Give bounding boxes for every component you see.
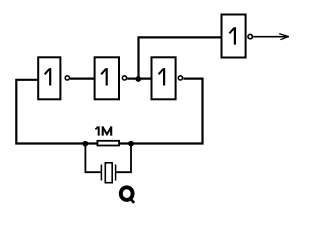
- junction node A: [135, 76, 141, 82]
- inverter U3 label 1: [163, 68, 165, 85]
- wire node A up and right to U4 input: [139, 37, 221, 79]
- inverter U1 box: [38, 57, 60, 99]
- wire crystal branch right: [116, 144, 131, 173]
- wire U1 to U2: [70, 77, 95, 79]
- inverter U3 box: [152, 57, 176, 99]
- inverter U3 output bubble: [178, 76, 182, 80]
- junction dot left of R1: [82, 141, 88, 147]
- inverter U2 label 1: [106, 68, 108, 85]
- crystal Q1 right plate: [115, 165, 117, 181]
- resistor R1 value 1M: [98, 126, 100, 135]
- resistor R1 body: [97, 141, 119, 146]
- junction dot right of R1: [128, 141, 134, 147]
- wire U2 to U3: [127, 77, 151, 79]
- inverter U1 output bubble: [65, 76, 69, 80]
- crystal Q1 body: [105, 163, 112, 183]
- inverter U4 label 1: [234, 27, 236, 44]
- inverter U4 box: [222, 15, 246, 58]
- arrowhead output: [279, 34, 289, 40]
- inverter U2 output bubble: [122, 76, 126, 80]
- wire U4 output: [253, 36, 289, 38]
- inverter U2 box: [95, 57, 119, 99]
- inverter U1 label 1: [49, 68, 51, 85]
- wire crystal branch left: [85, 144, 100, 173]
- crystal Q1 left plate: [100, 165, 102, 181]
- inverter U4 output bubble: [248, 34, 252, 38]
- crystal label Q: [121, 187, 133, 200]
- wire feedback loop: U3 output corner, bottom rail, up to U1 input: [16, 79, 202, 144]
